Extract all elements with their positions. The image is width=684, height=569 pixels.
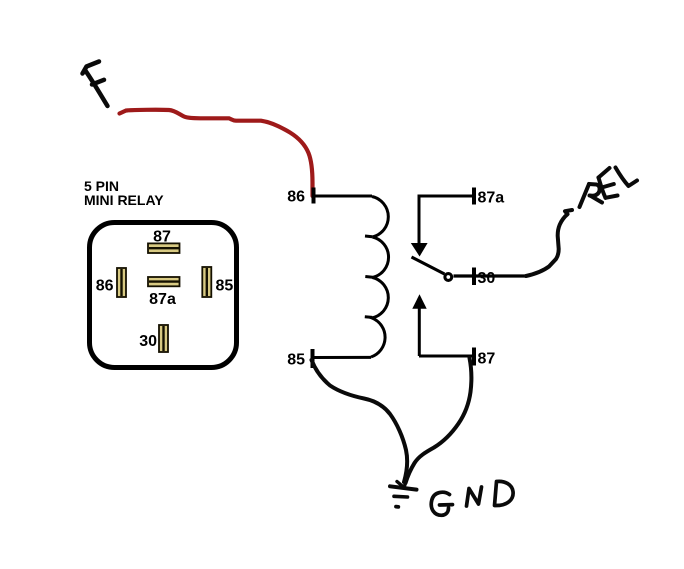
label GND (handwritten) xyxy=(431,481,513,515)
terminal tick 30 xyxy=(472,268,476,286)
pin 30 (bottom vertical terminal) xyxy=(159,325,168,352)
label F (handwritten fuse/feed label) xyxy=(83,62,108,107)
terminal tick 85 xyxy=(311,349,315,368)
wire 87 to arrow xyxy=(418,307,421,356)
arrowhead down to contact xyxy=(411,243,428,257)
svg-text:85: 85 xyxy=(287,352,305,369)
pin 87 (top horizontal terminal) xyxy=(148,243,180,253)
wire 87a to switch xyxy=(419,196,474,245)
svg-text:87: 87 xyxy=(478,351,496,368)
svg-text:86: 86 xyxy=(287,189,305,206)
pin 87a (center horizontal terminal) xyxy=(148,277,180,286)
terminal tick 86 xyxy=(312,188,316,204)
coil cusp tick 2 xyxy=(365,275,372,279)
svg-text:85: 85 xyxy=(216,278,234,295)
svg-text:87a: 87a xyxy=(149,291,176,308)
wire 87 to ground (hand drawn) xyxy=(406,358,472,483)
arrowhead up from 87 xyxy=(412,294,426,308)
wire coil to 85 xyxy=(313,356,371,359)
wire 30 to REL (hand drawn) xyxy=(526,210,572,276)
relay coil xyxy=(371,197,389,358)
terminal tick 87a xyxy=(472,188,476,205)
wire F to pin 86 (red power wire) xyxy=(120,110,313,196)
pin 86 (left vertical terminal) xyxy=(117,268,126,297)
wire 87 horizontal xyxy=(419,355,472,358)
svg-text:30: 30 xyxy=(139,333,157,350)
wire 85 to ground (hand drawn) xyxy=(312,360,408,482)
wire 86 to coil xyxy=(314,195,372,198)
wire pivot to 30 xyxy=(454,274,527,277)
terminal tick 87 xyxy=(472,348,476,366)
svg-text:86: 86 xyxy=(96,278,114,295)
svg-text:30: 30 xyxy=(478,270,496,287)
pin 85 (right vertical terminal) xyxy=(202,267,211,297)
svg-text:87a: 87a xyxy=(478,190,505,207)
relay body outline (pinout box) xyxy=(90,223,237,368)
svg-text:87: 87 xyxy=(153,229,171,246)
coil cusp tick 3 xyxy=(365,315,372,319)
label REL (handwritten) xyxy=(580,168,638,208)
svg-text:MINI RELAY: MINI RELAY xyxy=(84,192,164,208)
coil cusp tick 1 xyxy=(365,235,372,239)
ground symbol xyxy=(390,486,417,507)
switch pivot circle xyxy=(445,274,452,281)
arrowhead at ground xyxy=(397,477,408,488)
switch blade xyxy=(412,257,445,274)
